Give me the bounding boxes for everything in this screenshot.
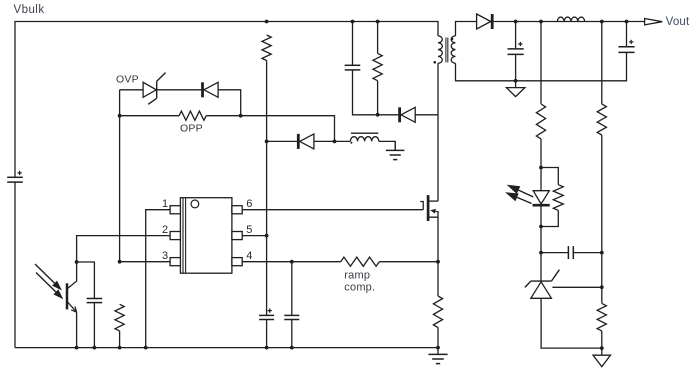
op-amp U1 controller body — [180, 198, 232, 274]
wire source to sense — [437, 217, 439, 262]
wire secondary bottom — [456, 53, 627, 81]
junction anode node — [600, 346, 604, 350]
capacitor C2 snubber — [345, 22, 378, 115]
junction C5 rail — [93, 346, 97, 350]
wire pin1 to ground — [146, 210, 170, 348]
junction opto collector node — [75, 260, 79, 264]
transformer T1 primary winding — [438, 36, 442, 63]
wire FB2 top — [601, 22, 603, 105]
pin 4 box — [232, 258, 242, 266]
junction ref node — [600, 285, 604, 289]
ground secondary lower — [593, 348, 611, 367]
light arrow from LED 1 — [507, 185, 534, 197]
wire aux winding to ground — [379, 141, 395, 150]
capacitor C1 bulk electrolytic — [7, 171, 23, 182]
svg-text:1: 1 — [162, 198, 168, 210]
svg-text:ramp: ramp — [344, 269, 370, 281]
svg-text:Vout: Vout — [666, 16, 690, 28]
wire R7 to LED node — [540, 139, 542, 168]
svg-text:6: 6 — [246, 198, 252, 210]
transistor Q2 opto base bar — [66, 283, 69, 309]
wire R6 to rail — [119, 331, 121, 348]
node Vout label — [666, 16, 690, 28]
light arrow into opto 2 — [36, 273, 63, 300]
wire OPP row right — [206, 115, 241, 117]
junction C6 rail — [514, 79, 518, 83]
junction output cap1 — [514, 20, 518, 24]
transistor Q1 source stub — [429, 211, 438, 217]
pin number 1 — [162, 198, 168, 210]
junction output cap2 — [625, 20, 629, 24]
wire R1 down Vcc line — [266, 61, 268, 316]
label OPP — [180, 123, 203, 135]
pin 1 box — [170, 206, 180, 214]
pin number 2 — [162, 224, 168, 236]
transistor Q1 body arrow — [430, 209, 438, 214]
wire LED to comp node — [540, 227, 542, 253]
junction comp right — [600, 251, 604, 255]
resistor R5 sense — [433, 296, 442, 328]
diode D5 output rectifier — [477, 14, 493, 29]
wire C3 to rail — [266, 320, 268, 348]
node Vbulk label — [14, 4, 45, 16]
wire primary to drain — [437, 63, 439, 201]
pin number 4 — [246, 250, 252, 262]
capacitor C8 compensation — [541, 246, 602, 259]
resistor R4 ramp comp — [341, 257, 380, 266]
junction comp left — [539, 251, 543, 255]
node Vout arrow — [645, 19, 663, 25]
junction feedback upper tap — [539, 20, 543, 24]
pin 5 box — [232, 232, 242, 240]
shunt regulator U3 TL431 — [525, 253, 560, 299]
ground secondary — [506, 81, 525, 97]
pin number 5 — [246, 224, 252, 236]
wire D4 to aux winding — [314, 140, 351, 142]
light arrow from LED 2 — [505, 192, 531, 203]
junction opto emitter rail — [75, 346, 79, 350]
wire C1 to bottom rail — [14, 182, 16, 348]
junction aux diode cathode on Vcc line — [265, 140, 269, 144]
transistor Q1 gate — [420, 202, 423, 210]
ground aux — [386, 141, 405, 159]
wire OPP row left — [120, 115, 180, 117]
wire U3 ref — [552, 286, 601, 288]
junction pin4 node — [290, 260, 294, 264]
wire D5 to Vout — [494, 21, 645, 23]
wire bottom rail — [15, 347, 438, 349]
svg-text:4: 4 — [246, 250, 252, 262]
resistor R8 LED parallel — [541, 168, 563, 227]
wire ramp row left — [292, 261, 341, 263]
junction C4 rail — [290, 346, 294, 350]
resistor R6 pin3 lower divider — [115, 304, 124, 331]
zener diode OVP — [120, 73, 166, 105]
junction top of snubber resistor — [376, 20, 380, 24]
junction R6 rail — [118, 346, 122, 350]
junction output post-L tap — [600, 20, 604, 24]
light arrow into opto 1 — [35, 264, 62, 291]
transistor Q2 opto collector — [68, 262, 77, 288]
junction LED top — [539, 166, 543, 170]
wire pin4 row — [242, 261, 292, 263]
pin number 6 — [246, 198, 252, 210]
wire Vcc to D4 — [267, 140, 297, 142]
resistor R9 bias upper — [597, 104, 606, 135]
pin 3 box — [170, 258, 180, 266]
pin 2 box — [170, 232, 180, 240]
junction pin1 wire rail — [144, 346, 148, 350]
junction pin3 divider — [118, 260, 122, 264]
junction pin5 Vcc — [265, 234, 269, 238]
transformer T1 secondary winding — [451, 36, 455, 63]
resistor R3 OPP — [179, 111, 206, 120]
wire ramp row right — [379, 261, 438, 263]
junction C3 rail — [265, 346, 269, 350]
capacitor C6 output — [508, 22, 524, 81]
junction LED bottom — [539, 225, 543, 229]
transistor Q1 drain stub — [429, 200, 438, 202]
wire pin6 to gate — [242, 209, 423, 211]
diode D1 clamp — [400, 107, 416, 122]
wire R9 down — [601, 135, 603, 253]
label OVP — [116, 74, 139, 86]
svg-text:OPP: OPP — [180, 123, 203, 135]
led D6 opto LED — [533, 168, 550, 227]
junction snubber bottom — [376, 113, 380, 117]
resistor R1 startup — [262, 35, 271, 61]
junction ramp source node — [436, 260, 440, 264]
wire pin5 to Vcc — [242, 235, 266, 237]
wire comp to ref node — [601, 253, 603, 288]
wire pin2 to opto — [77, 236, 171, 262]
resistor R7 upper feedback — [536, 104, 545, 139]
inductor L1 aux winding — [350, 137, 378, 142]
wire ref node to R10 — [601, 287, 603, 303]
wire R5 to rail — [437, 328, 439, 348]
capacitor C5 opto — [77, 262, 103, 348]
junction OPP right — [239, 114, 243, 118]
junction top of startup resistor — [265, 20, 269, 24]
wire U3 anode — [541, 298, 602, 348]
capacitor C7 output 2 — [618, 22, 634, 53]
wire secondary top — [456, 22, 480, 36]
wire sense node down — [437, 262, 439, 296]
junction aux node — [333, 140, 337, 144]
wire aux winding core bar — [351, 132, 378, 134]
capacitor C4 pin4 — [284, 262, 299, 348]
wire OPP to aux row — [241, 116, 335, 142]
wire zener to diode — [157, 89, 202, 91]
transformer T1 primary phase dot — [434, 61, 437, 64]
svg-text:comp.: comp. — [344, 282, 375, 294]
wire D3 to corner — [218, 90, 241, 116]
inductor L1 phase dot — [350, 142, 352, 144]
capacitor C3 Vcc — [259, 309, 274, 320]
label ramp comp — [344, 269, 375, 293]
junction rail ground — [436, 346, 440, 350]
ground primary — [428, 348, 447, 364]
wire D1 to drain line — [415, 114, 438, 116]
resistor R2 snubber — [373, 22, 382, 115]
transistor Q2 opto emitter — [68, 302, 77, 347]
junction OPP left — [118, 114, 122, 118]
svg-text:Vbulk: Vbulk — [14, 4, 45, 16]
svg-text:3: 3 — [162, 250, 168, 262]
wire pin3 row — [120, 261, 171, 263]
svg-text:5: 5 — [246, 224, 252, 236]
wire snubber to D1 — [378, 114, 399, 116]
junction top of snubber capacitor — [351, 20, 355, 24]
transformer T1 core — [446, 38, 448, 63]
svg-text:OVP: OVP — [116, 74, 139, 86]
wire OVP left vertical — [119, 90, 121, 262]
diode D4 aux rectifier — [298, 134, 314, 149]
inductor L2 output filter — [557, 17, 584, 21]
wire FB1 top — [540, 22, 542, 105]
pin number 3 — [162, 250, 168, 262]
diode D3 OVP series — [203, 82, 219, 97]
transformer T1 secondary phase dot — [451, 38, 454, 41]
wire top rail Vbulk — [15, 22, 438, 178]
transistor Q1 channel bar — [427, 195, 430, 221]
wire R10 to ground — [601, 331, 603, 348]
resistor R10 lower divider — [597, 303, 606, 331]
pin 6 box — [232, 206, 242, 214]
svg-text:2: 2 — [162, 224, 168, 236]
